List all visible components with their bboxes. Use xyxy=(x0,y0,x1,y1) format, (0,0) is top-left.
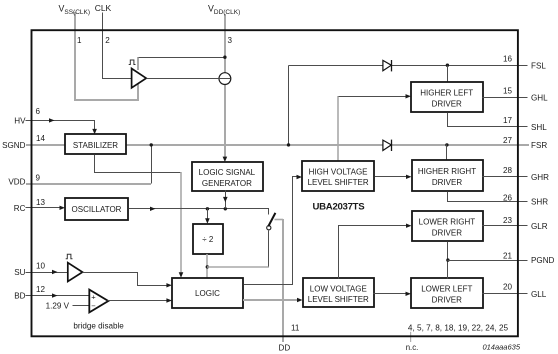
low voltage level shifter block xyxy=(303,278,374,307)
pulse symbol SU buffer xyxy=(66,254,73,258)
svg-text:10: 10 xyxy=(36,261,46,270)
node FSR driver junction xyxy=(445,143,448,146)
wire branch to divider xyxy=(207,209,209,219)
svg-text:OSCILLATOR: OSCILLATOR xyxy=(72,205,122,214)
buffer U2 startup xyxy=(68,263,83,282)
wire SU to buffer xyxy=(26,272,68,274)
svg-text:16: 16 xyxy=(503,55,513,64)
diode D1 on FSL xyxy=(383,60,392,71)
svg-text:HV: HV xyxy=(14,116,26,125)
arrowhead into higher right driver xyxy=(406,175,412,179)
wire logic to high voltage level shifter xyxy=(244,177,298,285)
svg-text:LOGIC: LOGIC xyxy=(195,289,220,298)
svg-text:28: 28 xyxy=(503,166,513,175)
svg-text:GHR: GHR xyxy=(531,173,549,182)
arrowhead BD into logic xyxy=(166,298,172,302)
wire riser to higher left driver xyxy=(339,96,407,98)
svg-text:HIGHER RIGHT: HIGHER RIGHT xyxy=(418,167,476,176)
wire stabilizer-logic gray drop xyxy=(180,172,182,273)
svg-text:1.29 V: 1.29 V xyxy=(46,301,70,310)
svg-text:n.c.: n.c. xyxy=(406,343,419,352)
wire VDD(CLK) pin3 rail upper xyxy=(224,14,226,73)
arrowhead into logic top left xyxy=(179,272,184,277)
node FSL driver junction xyxy=(446,63,449,66)
wire buffer output to current source xyxy=(147,78,219,80)
arrowhead into lower right driver xyxy=(406,224,412,228)
wire PGND output xyxy=(448,260,528,262)
svg-text:+: + xyxy=(91,293,96,302)
arrowhead SU into logic xyxy=(166,283,172,287)
svg-text:4, 5, 7, 8, 18, 19, 22, 24, 25: 4, 5, 7, 8, 18, 19, 22, 24, 25 xyxy=(408,323,509,332)
svg-text:VDD: VDD xyxy=(8,177,25,186)
svg-text:1: 1 xyxy=(77,36,82,45)
wire FSL line xyxy=(289,65,528,67)
wire comparator to logic xyxy=(108,300,168,302)
arrowhead into higher left driver xyxy=(406,94,412,98)
svg-text:SHL: SHL xyxy=(531,123,547,132)
wire junction to switch riser xyxy=(207,266,269,268)
wire HV stub xyxy=(26,120,32,122)
svg-text:÷ 2: ÷ 2 xyxy=(202,235,214,244)
svg-text:HIGH VOLTAGE: HIGH VOLTAGE xyxy=(309,167,368,176)
svg-text:DRIVER: DRIVER xyxy=(432,228,462,237)
svg-text:DRIVER: DRIVER xyxy=(432,178,462,187)
svg-text:3: 3 xyxy=(228,36,233,45)
arrowhead into high voltage level shifter xyxy=(297,175,303,179)
wire FSL riser from SGND xyxy=(288,66,290,145)
svg-text:bridge disable: bridge disable xyxy=(73,322,124,331)
arrowhead into lower left driver xyxy=(406,292,412,296)
svg-text:12: 12 xyxy=(36,285,46,294)
svg-text:DRIVER: DRIVER xyxy=(432,99,462,108)
wire VDD rail xyxy=(26,183,151,185)
wire stabilizer to logic xyxy=(95,155,181,173)
svg-text:LEVEL SHIFTER: LEVEL SHIFTER xyxy=(308,295,369,304)
svg-text:21: 21 xyxy=(503,252,513,261)
wire RC to oscillator xyxy=(26,207,61,209)
lower right driver block xyxy=(412,211,483,241)
svg-text:−: − xyxy=(91,301,96,310)
wire SHL output xyxy=(448,113,528,127)
wire SGND / FSR rail xyxy=(26,144,529,146)
wire CLK pin2 xyxy=(103,13,133,79)
node junction top bus xyxy=(223,56,226,59)
svg-text:13: 13 xyxy=(36,198,46,207)
svg-text:014aaa635: 014aaa635 xyxy=(482,343,520,352)
wire VDD(CLK) pin3 rail lower to logic signal generator xyxy=(224,84,226,157)
wire FSL to higher left driver top xyxy=(447,66,449,83)
current source I1 xyxy=(219,73,231,85)
svg-text:DD: DD xyxy=(279,344,291,353)
svg-text:PGND: PGND xyxy=(531,256,555,265)
arrowhead into oscillator xyxy=(60,206,66,210)
svg-text:DRIVER: DRIVER xyxy=(432,295,462,304)
svg-text:STABILIZER: STABILIZER xyxy=(73,141,118,150)
svg-text:20: 20 xyxy=(503,283,513,292)
arrowhead into logic signal generator xyxy=(223,157,228,162)
wire FSR to higher right driver top xyxy=(446,145,448,161)
diode D2 on FSR xyxy=(383,140,392,151)
arrowhead into divider xyxy=(205,218,210,223)
wire divider output gray xyxy=(206,254,208,278)
wire high voltage level shifter top riser xyxy=(337,96,339,161)
svg-text:17: 17 xyxy=(503,116,513,125)
wire top bus to VDD(CLK) xyxy=(139,57,225,59)
svg-text:LOWER LEFT: LOWER LEFT xyxy=(421,285,472,294)
svg-text:HIGHER LEFT: HIGHER LEFT xyxy=(420,89,473,98)
svg-text:11: 11 xyxy=(291,323,300,332)
stabilizer block xyxy=(65,134,126,154)
wire GHL output xyxy=(483,97,528,99)
node divider branch xyxy=(206,207,209,210)
wire generator output down xyxy=(225,191,227,209)
node generator branch xyxy=(224,207,227,210)
svg-text:GLL: GLL xyxy=(531,290,547,299)
oscillator block xyxy=(65,198,128,220)
current source bar xyxy=(219,78,231,80)
wire logic to low voltage level shifter xyxy=(243,299,297,301)
divider block div2 xyxy=(193,224,223,254)
svg-text:FSL: FSL xyxy=(531,61,546,70)
wire high voltage level shifter to higher right driver xyxy=(375,176,407,178)
svg-text:GENERATOR: GENERATOR xyxy=(202,179,252,188)
pulse symbol clock buffer xyxy=(129,60,136,65)
arrowhead BD mid xyxy=(52,293,58,297)
svg-text:UBA2037TS: UBA2037TS xyxy=(313,202,366,213)
node PGND junction xyxy=(446,258,449,261)
wire low voltage level shifter to lower left driver xyxy=(374,293,407,295)
higher left driver block xyxy=(411,82,483,112)
wire GLR output xyxy=(483,225,528,227)
wire GHR output xyxy=(483,176,528,178)
svg-text:GLR: GLR xyxy=(531,222,548,231)
svg-text:GHL: GHL xyxy=(531,94,548,103)
svg-text:2: 2 xyxy=(105,36,110,45)
high voltage level shifter block xyxy=(302,161,374,191)
arrowhead SU mid xyxy=(52,270,58,274)
svg-text:27: 27 xyxy=(503,136,513,145)
svg-text:23: 23 xyxy=(503,216,513,225)
arrowhead generator output xyxy=(223,197,228,202)
higher right driver block xyxy=(412,160,483,191)
switch S1 blade xyxy=(268,213,275,227)
node FSL-SGND junction xyxy=(287,143,290,146)
lower left driver block xyxy=(411,278,483,308)
arrowhead HV mid xyxy=(49,118,55,122)
clock buffer U1 xyxy=(132,69,147,88)
node VDD-SGND junction xyxy=(150,143,153,146)
wire VDD riser to SGND xyxy=(151,145,153,184)
wire low voltage level shifter riser to lower right driver xyxy=(339,226,407,279)
svg-text:SHR: SHR xyxy=(531,198,548,207)
svg-text:CLK: CLK xyxy=(95,3,112,13)
wire DD rail xyxy=(282,219,284,342)
svg-text:6: 6 xyxy=(36,107,41,116)
arrowhead into low voltage level shifter xyxy=(297,298,303,302)
svg-text:15: 15 xyxy=(503,87,513,96)
arrowhead oscillator mid xyxy=(150,207,156,211)
svg-text:BD: BD xyxy=(14,292,25,301)
svg-text:LOGIC SIGNAL: LOGIC SIGNAL xyxy=(199,168,256,177)
wire GLL output xyxy=(483,293,528,295)
wire BD to comparator xyxy=(26,295,89,297)
wire 1.29V reference xyxy=(73,305,91,307)
svg-text:26: 26 xyxy=(503,194,513,203)
wire SU buffer to logic xyxy=(83,273,168,286)
svg-text:LOWER RIGHT: LOWER RIGHT xyxy=(419,218,476,227)
switch S1 circle xyxy=(267,226,271,230)
wire oscillator output xyxy=(129,209,269,215)
svg-text:SU: SU xyxy=(14,268,25,277)
svg-text:LOW VOLTAGE: LOW VOLTAGE xyxy=(310,284,367,293)
wire VSS(CLK) pin1 rail xyxy=(75,12,138,100)
wire HV to stabilizer xyxy=(32,121,95,131)
svg-text:9: 9 xyxy=(36,174,41,183)
svg-text:SGND: SGND xyxy=(2,141,26,150)
node divider output junction xyxy=(206,265,209,268)
svg-text:14: 14 xyxy=(36,134,46,143)
svg-text:LEVEL SHIFTER: LEVEL SHIFTER xyxy=(308,178,369,187)
wire buffer supply top stub xyxy=(137,57,139,70)
logic signal generator block xyxy=(192,162,263,191)
comparator U3 bridge disable xyxy=(89,290,108,313)
wire PGND vertical xyxy=(447,242,449,279)
logic block xyxy=(172,278,243,308)
wire nc tick xyxy=(410,332,412,342)
outer IC border xyxy=(32,30,518,336)
wire SHR output xyxy=(448,192,528,202)
svg-text:FSR: FSR xyxy=(531,141,547,150)
svg-text:RC: RC xyxy=(14,204,26,213)
arrowhead into stabilizer xyxy=(92,129,97,134)
wire switch riser xyxy=(268,231,270,267)
wire switch to DD rail xyxy=(275,219,284,221)
